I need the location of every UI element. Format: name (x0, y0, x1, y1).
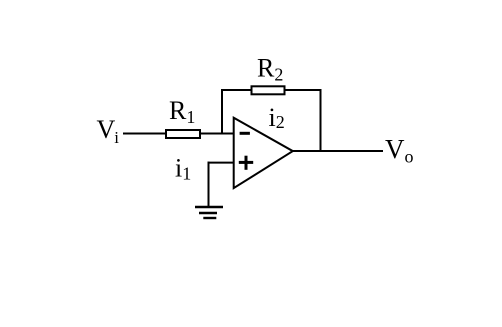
wire: node A up to feedback branch (221, 89, 223, 135)
wire: non-inverting input to ground branch (208, 162, 235, 164)
node B (junction of feedback and output wire) (320, 150, 322, 152)
wire: op-amp output to Vo (292, 150, 383, 152)
wire: feedback top, right segment from R2 (285, 89, 322, 91)
op-amp U1 (234, 118, 293, 188)
wire: feedback right vertical down to output node B (320, 89, 322, 152)
wire: Vi to resistor R1 (123, 133, 166, 135)
ground (195, 207, 223, 218)
wire: R1 to inverting input node A (201, 133, 234, 135)
wire: ground branch vertical (208, 162, 210, 207)
op-amp U1 inverting pin marker (-) (240, 132, 250, 135)
wire: feedback top, left segment to R2 (221, 89, 252, 91)
resistor R1 (166, 130, 200, 138)
op-amp U1 non-inverting pin marker (+) (239, 156, 253, 170)
node A (junction of R1, R2, op-amp inverting input) (221, 133, 223, 135)
resistor R2 (252, 86, 285, 94)
